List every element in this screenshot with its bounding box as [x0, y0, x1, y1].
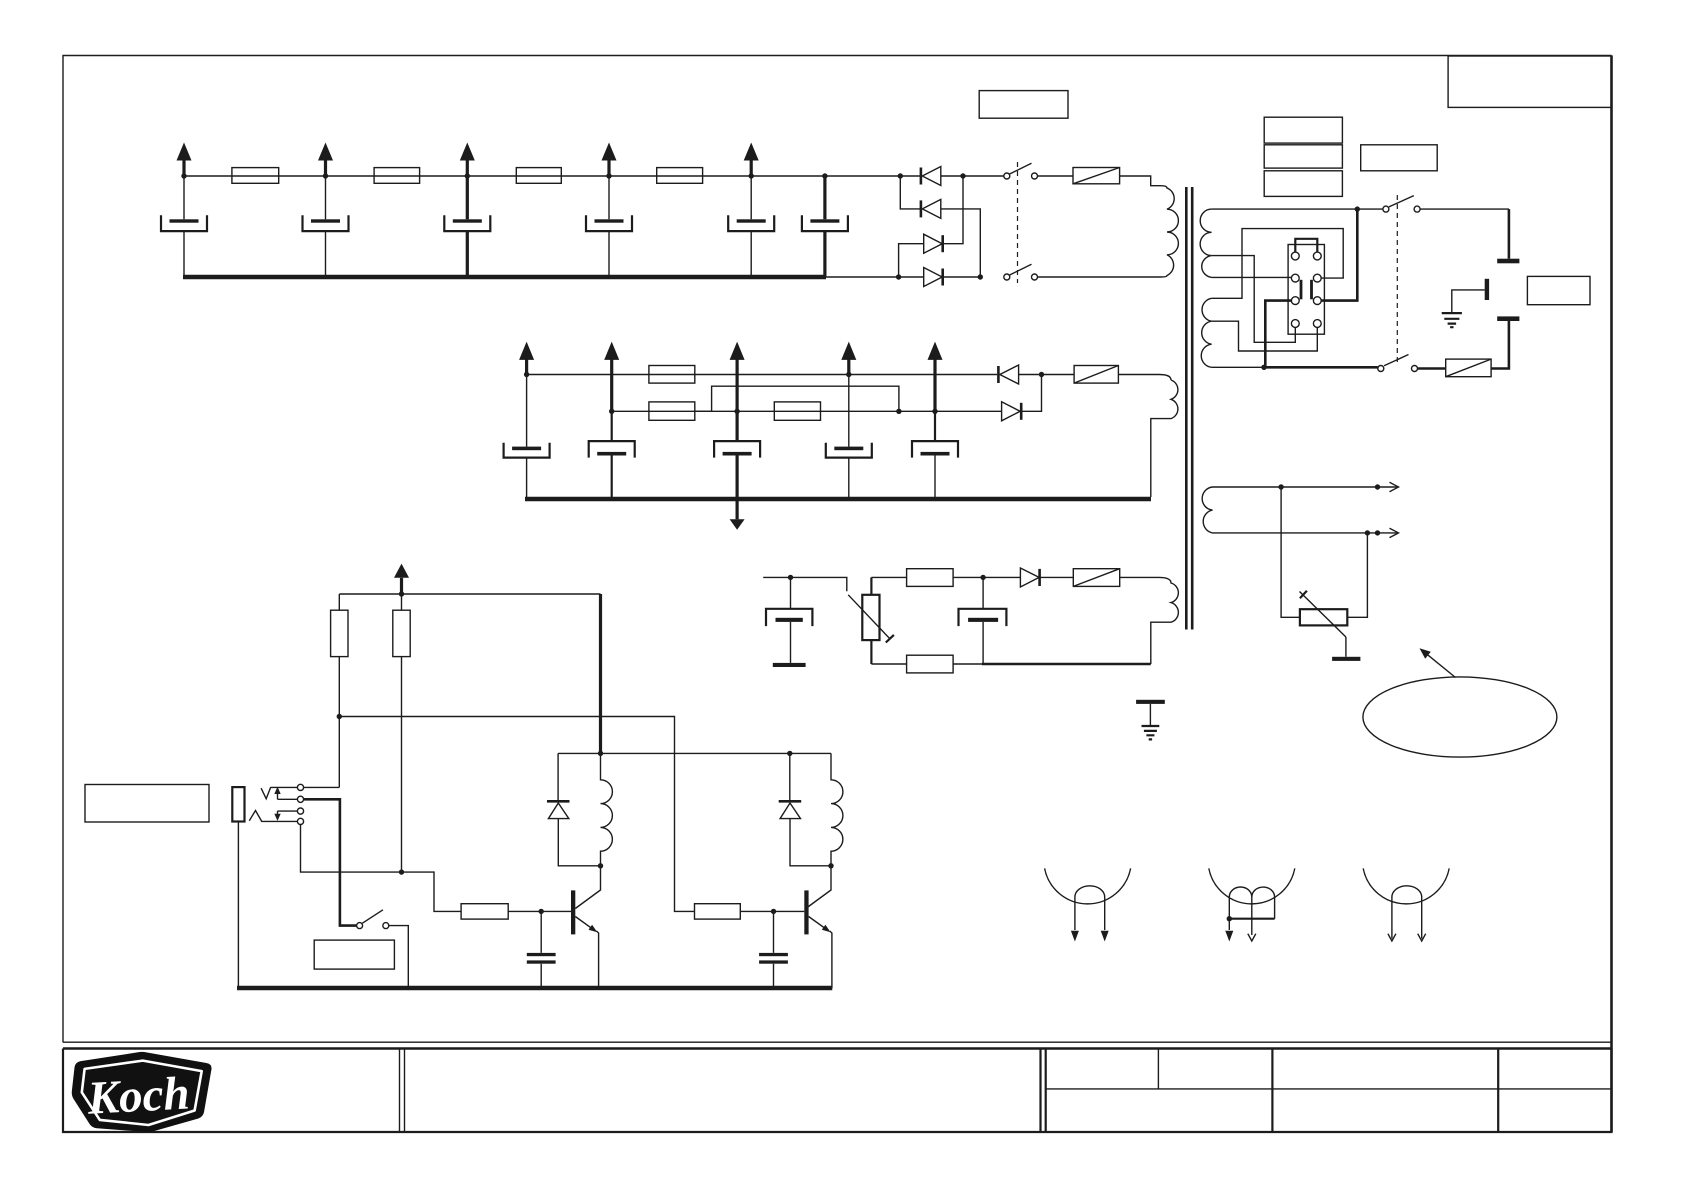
Koch logo shield [73, 1053, 210, 1130]
jack sleeve contact [249, 811, 297, 822]
power flag arrow node 2 [318, 143, 333, 177]
resistor R2 [374, 168, 420, 184]
tube V2 envelope arc [1209, 868, 1295, 903]
wire : HT2 row1 [527, 374, 997, 376]
diode D7 [1020, 568, 1039, 587]
wire : HT2 ground bus [525, 497, 1151, 502]
node dots chain1 top rail [181, 173, 827, 178]
choke L1 ch1 [601, 753, 613, 865]
wire : tap2 to selector row4 left pin [1212, 256, 1296, 343]
diode D1 [921, 167, 941, 186]
wire : S1b to primary bottom [1038, 276, 1161, 278]
tube V1 envelope arc [1045, 868, 1131, 903]
wire : section2 top tap loop to row2 right pin [1212, 229, 1344, 299]
earth ground symbol [1442, 313, 1462, 327]
wire : heater top rail with output arrow [1213, 482, 1399, 491]
tube V3 envelope arc [1363, 868, 1449, 903]
switch gang dashed link [1017, 162, 1019, 283]
power flag arrow rail [394, 564, 409, 594]
label box above mains switch [979, 91, 1068, 119]
wire : row3 left pin to bottom rail [1265, 301, 1291, 368]
switch gang dashed link mains [1396, 195, 1398, 364]
resistor R1 [232, 168, 279, 184]
power flag arrow node 1 [177, 143, 192, 177]
node dots bridge [896, 173, 983, 279]
wire : earth pin to ground [1452, 290, 1485, 313]
jack switch down arrow [274, 811, 297, 821]
ground bar hum pot [1332, 657, 1360, 661]
power flag arrow HT2 node 5 [928, 342, 943, 412]
capacitor C4 [586, 176, 632, 277]
note balloon ellipse [1363, 677, 1557, 757]
selector contact bar left [1300, 280, 1303, 300]
diode D8 flyback ch1 [547, 753, 601, 865]
resistor R7 [774, 402, 820, 420]
wire : D7 to fuse F4 [1040, 576, 1074, 578]
choke L2 ch2 [831, 753, 843, 865]
label box selector 2 [1264, 145, 1342, 168]
transistor Q2 [804, 866, 832, 988]
resistor R10 [331, 594, 348, 717]
ground flag down arrow center [730, 499, 745, 530]
selector pin 3 [1291, 274, 1299, 282]
fuse F4 [1073, 569, 1119, 587]
capacitor C5 [728, 176, 774, 277]
wire : switch to fuse F1 [1038, 175, 1074, 177]
tube V2 heater hairpin A [1229, 887, 1252, 935]
label box footswitch [85, 785, 209, 823]
transformer T1 core [1186, 187, 1192, 630]
capacitor C13 bias filter [959, 577, 1007, 664]
mains plug earth pin [1485, 279, 1489, 300]
input jack J1 [232, 787, 244, 988]
diode D9 flyback ch2 [779, 753, 831, 865]
resistor R4 [657, 168, 703, 184]
wire : secondary top tap to switch [1212, 208, 1383, 210]
wire : HT2 row2 [612, 410, 1002, 412]
node dots bias [788, 575, 986, 580]
wire : tap row2 left pin [1212, 276, 1292, 278]
capacitor C6 [802, 176, 848, 277]
label box standby [314, 940, 394, 969]
jack terminal 2 [297, 796, 303, 802]
selector top jumper bridge [1295, 239, 1317, 252]
tube V3 heater hairpin [1392, 886, 1422, 939]
chassis ground below transformer [1136, 700, 1165, 740]
label box voltage [1361, 145, 1438, 171]
wire : N plate down to fuse [1491, 321, 1509, 369]
capacitor C7 [504, 375, 550, 500]
title block frame [63, 1049, 1612, 1133]
resistor R9 [907, 655, 954, 673]
wire : R6 bypass loop over center [695, 386, 899, 411]
selector pin 8 [1313, 320, 1321, 328]
power flag arrow HT2 node 3 [730, 342, 745, 412]
tube V3 heater arrows [1388, 934, 1426, 941]
node dots chain2 [524, 372, 1044, 414]
wire : reverb supply rail [339, 593, 600, 595]
switch S1b mains primary bottom [1004, 264, 1038, 280]
wire : jack tip to divider [304, 786, 340, 788]
fuse F5 [1446, 359, 1491, 377]
wire : screen rail [339, 717, 694, 912]
capacitor C14 ch1 [527, 911, 556, 988]
node dots heater [1278, 484, 1380, 535]
wire : jack sleeve rail [301, 825, 462, 912]
ground bar bias cap [773, 663, 806, 667]
selector contact bar right [1310, 280, 1313, 300]
node dots selector [1261, 206, 1360, 370]
jack terminal 3 [297, 808, 303, 814]
selector pin 4 [1313, 274, 1321, 282]
diode D5 [998, 365, 1018, 384]
resistor R12 base ch1 [461, 904, 571, 919]
capacitor C15 ch2 [759, 911, 788, 988]
power flag arrow HT2 node 2 [604, 342, 619, 412]
resistor R5 [649, 366, 695, 384]
wire : bus extension to bridge [826, 276, 898, 278]
power flag arrow HT2 node 1 [519, 342, 534, 375]
power flag arrow HT2 node 4 [841, 342, 856, 375]
node dots power amp [337, 591, 834, 914]
jack switch up arrow [274, 787, 297, 800]
wire : fuse F2 to HT winding [1118, 375, 1171, 381]
power flag arrow node 3 [460, 143, 475, 177]
voltage selector block [1288, 245, 1324, 335]
label box mains [1527, 276, 1590, 304]
label box selector 3 [1264, 171, 1342, 197]
title corner box top-right [1448, 56, 1612, 107]
tube V1 heater hairpin [1075, 886, 1105, 930]
wire : supply feed down to collector rail [599, 594, 602, 753]
wire : HT2 row1 after D5 [1019, 374, 1075, 376]
jack terminal 4 [297, 818, 303, 824]
resistor R13 base ch2 [695, 904, 805, 919]
transformer T1 primary winding [1161, 186, 1179, 277]
label box selector 1 [1264, 117, 1342, 143]
switch S3 standby [357, 910, 389, 929]
tube V2 heater arrows [1225, 931, 1256, 942]
resistor R6 [649, 402, 695, 420]
wire : power amp ground bus [237, 986, 832, 991]
fuse F2 [1074, 366, 1118, 384]
wire : jack terminal2 to standby switch [304, 799, 357, 925]
wire : standby switch to ground bus [389, 926, 409, 988]
selector pin 7 [1291, 320, 1299, 328]
selector pin 1 [1291, 252, 1299, 260]
hum balance potentiometer [1300, 591, 1348, 637]
power flag arrow node 4 [602, 143, 617, 177]
selector pin 5 [1291, 297, 1299, 305]
mains plug pin L plate [1497, 259, 1519, 264]
transformer T1 mains secondary section 1 [1200, 209, 1211, 277]
wire : pot wiper to ground bar [1345, 637, 1347, 657]
diode D3 [899, 176, 963, 277]
wire : trimmer bottom rail [870, 640, 872, 664]
jack tip contact V [261, 787, 297, 799]
transformer T1 HT secondary winding [1151, 380, 1178, 497]
wire : S2a to mains plug line pin [1420, 208, 1509, 210]
wire : rail to jack tip [338, 717, 340, 788]
note balloon arrow [1420, 648, 1456, 677]
wire : heater bottom to hum pot right [1347, 533, 1367, 617]
tube V1 heater arrows [1071, 931, 1109, 942]
fuse F1 [1073, 168, 1120, 184]
capacitor C9 [714, 411, 760, 499]
wire : R8 to D7 [953, 576, 1020, 578]
transformer T1 bias winding [1120, 577, 1179, 664]
wire : heater top to hum pot left [1281, 487, 1300, 617]
wire : heater bottom rail with output arrow [1213, 528, 1399, 537]
capacitor C1 [161, 176, 207, 277]
wire : collector rail [558, 752, 831, 754]
transformer T1 heater winding [1202, 487, 1212, 533]
jack terminal 1 [297, 784, 303, 790]
wire : HT1 rail after bridge to switch [941, 175, 1004, 177]
tube V2 heater hairpin B [1252, 887, 1275, 919]
capacitor C10 [826, 375, 872, 500]
resistor R11 [393, 594, 410, 872]
wire : bias top rail left [763, 577, 847, 591]
selector pin 2 [1313, 252, 1321, 260]
wire : trimmer top to R8 [870, 577, 872, 594]
wire : secondary bottom rail [1212, 366, 1264, 368]
svg-text:Koch: Koch [85, 1067, 190, 1124]
wire : HT1 top rail [184, 175, 920, 177]
bias trimmer P1 [848, 595, 894, 643]
wire : fuse F5 to S2b [1418, 367, 1446, 370]
wire : HT1 ground bus [183, 275, 826, 280]
capacitor C2 [303, 176, 349, 277]
resistor R8 [907, 569, 954, 587]
transformer T1 mains secondary section 2 [1201, 298, 1211, 367]
wire : fuse F1 to primary winding [1120, 176, 1161, 186]
diode D6 [1002, 375, 1042, 421]
wire : tap4 to selector row4 right pin [1212, 321, 1318, 351]
resistor R3 [516, 168, 561, 184]
transistor Q1 [571, 866, 601, 988]
wire : R9 to bias bus [953, 663, 982, 665]
switch S2b mains bottom [1378, 355, 1418, 372]
capacitor C8 [589, 411, 635, 499]
wire : row3 right pin to top rail [1321, 209, 1357, 301]
selector pin 6 [1313, 297, 1321, 305]
capacitor C3 [444, 176, 490, 277]
power flag arrow node 5 [744, 143, 759, 177]
mains plug pin N plate [1497, 316, 1519, 321]
tube V2 heater jumper [1227, 916, 1275, 921]
wire : bias return bus thick [982, 663, 1151, 666]
switch S2a mains top [1383, 196, 1420, 213]
diode D2 [900, 176, 980, 277]
switch S1a mains primary top [1004, 163, 1038, 179]
diode D4 [899, 268, 981, 287]
capacitor C11 [912, 411, 958, 499]
capacitor C12 bias [766, 577, 812, 663]
